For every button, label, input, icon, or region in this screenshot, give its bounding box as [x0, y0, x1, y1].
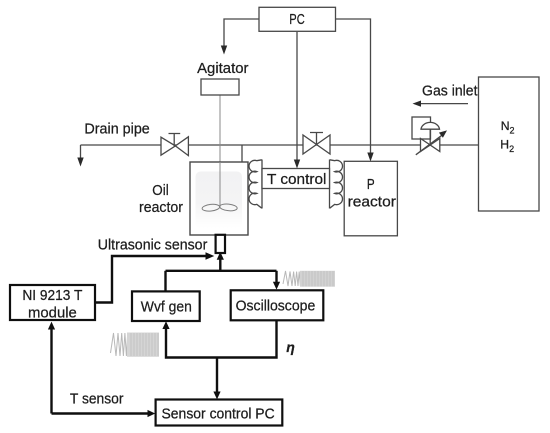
svg-text:T sensor: T sensor — [70, 390, 124, 407]
svg-text:Gas inlet: Gas inlet — [422, 83, 478, 100]
svg-text:P: P — [367, 176, 375, 193]
svg-text:Agitator: Agitator — [197, 60, 248, 77]
svg-text:η: η — [286, 339, 295, 355]
svg-text:reactor: reactor — [139, 199, 183, 216]
svg-text:Oil: Oil — [152, 182, 168, 199]
svg-text:module: module — [28, 304, 77, 321]
svg-text:NI 9213 T: NI 9213 T — [22, 287, 82, 304]
svg-text:PC: PC — [289, 11, 305, 28]
svg-text:Sensor control PC: Sensor control PC — [162, 406, 275, 423]
svg-text:Wvf gen: Wvf gen — [141, 299, 192, 316]
svg-text:Drain pipe: Drain pipe — [84, 121, 149, 138]
svg-text:T control: T control — [267, 171, 326, 188]
svg-text:Ultrasonic sensor: Ultrasonic sensor — [98, 236, 208, 253]
svg-text:reactor: reactor — [348, 194, 396, 211]
svg-text:Oscilloscope: Oscilloscope — [236, 298, 316, 315]
